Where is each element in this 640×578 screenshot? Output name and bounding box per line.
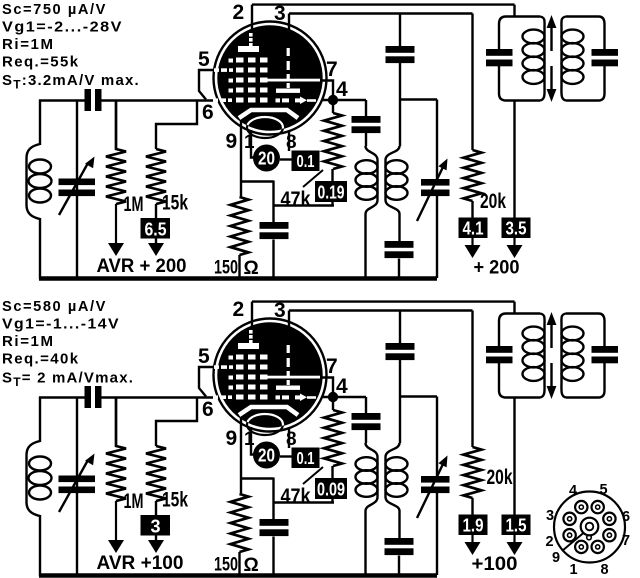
wire: transformer primary bottom to supply (stage 2): [513, 398, 515, 519]
wire: transformer primary bottom to supply (stage 1): [513, 101, 515, 222]
wire: primary branch (stage 1): [400, 14, 437, 279]
svg-text:9: 9: [226, 427, 238, 450]
svg-text:8: 8: [286, 132, 297, 153]
pin 8 lead (stage 2): [280, 427, 292, 457]
svg-text:6: 6: [202, 398, 214, 421]
svg-text:0.09: 0.09: [317, 480, 345, 500]
arrow to AVR (stage 1): [115, 204, 117, 246]
svg-text:0.19: 0.19: [318, 183, 345, 203]
svg-text:9: 9: [552, 550, 560, 566]
tuning arrow down (stage 2): [547, 363, 557, 399]
arrow transformer to supply (stage 1): [513, 238, 515, 248]
capacitor node4 coupling (stage 1): [352, 116, 381, 123]
svg-text:15k: 15k: [162, 192, 188, 215]
arrow to supply (stage 2): [155, 540, 157, 543]
value box anode current right (stage 2): [502, 515, 531, 536]
value box screen voltage (stage 2): [315, 478, 347, 499]
svg-text:4.1: 4.1: [463, 219, 484, 239]
pin 2 lead (stage 1): [251, 5, 253, 30]
svg-text:5: 5: [198, 48, 210, 71]
IF transformer T1 primary winding (stage 1): [356, 146, 378, 278]
wire: anode line from pin 3 (stage 2): [289, 311, 473, 448]
arrow 20k to supply (stage 1): [471, 238, 473, 248]
value box screen voltage (stage 1): [315, 181, 347, 202]
capacitor T1 secondary to rail (stage 1): [385, 241, 414, 278]
resistor 47k screen (stage 1): [274, 100, 343, 206]
svg-text:20: 20: [258, 446, 275, 466]
arrow to AVR (stage 2): [115, 501, 117, 543]
svg-text:6.5: 6.5: [145, 220, 167, 240]
svg-text:7: 7: [622, 533, 630, 549]
arrow 20k to supply (stage 2): [471, 535, 473, 545]
value box under 15k (stage 1): [141, 218, 171, 239]
capacitor cathode bypass (stage 2): [260, 519, 289, 575]
resistor 15k screen feed (stage 2): [146, 398, 197, 546]
svg-text:1M: 1M: [124, 193, 144, 216]
svg-text:Vg1=-1...-14V: Vg1=-1...-14V: [2, 316, 120, 333]
svg-text:5: 5: [599, 482, 607, 498]
tuning arrow down (stage 1): [547, 66, 557, 102]
node 4 junction (stage 1): [328, 95, 338, 105]
svg-text:+100: +100: [472, 554, 518, 575]
svg-text:AVR +100: AVR +100: [97, 553, 184, 574]
pin 1 lead (stage 1): [251, 130, 254, 158]
svg-text:8: 8: [600, 562, 608, 578]
trimmer capacitor with arrow (stage 2): [417, 456, 450, 519]
svg-text:20: 20: [258, 149, 275, 169]
value box 0.1 (stage 1): [292, 151, 320, 172]
pin 3 lead (stage 1): [288, 14, 290, 32]
value box anode current left (stage 1): [459, 218, 488, 239]
wire: bottom rail (stage 2): [39, 573, 437, 578]
current value circle 20 (stage 1): [253, 145, 280, 172]
svg-text:4: 4: [569, 483, 577, 499]
pin 3 lead (stage 2): [288, 311, 290, 329]
pin 7 lead (stage 2): [320, 378, 333, 393]
variable capacitor (tuning) (stage 1): [59, 157, 96, 216]
svg-text:47k: 47k: [281, 485, 311, 508]
pin 5 lead (stage 1): [199, 70, 214, 100]
coupling capacitor grid input (stage 2): [85, 386, 102, 408]
wire: grid input line from antenna coil to pin 6 (stage 1): [39, 99, 219, 101]
tube envelope (stage 2): [214, 319, 327, 432]
value box anode current left (stage 2): [459, 515, 488, 536]
leader line 47k (stage 2): [303, 467, 323, 484]
IF transformer T1 secondary winding (stage 2): [386, 443, 408, 538]
capacitor T2 primary tuning (stage 2): [486, 346, 513, 363]
pin 8 lead (stage 1): [280, 130, 292, 160]
pin 1 lead (stage 2): [251, 427, 254, 455]
wire: cathode node (stage 1): [241, 181, 274, 223]
pin 9 lead (stage 1): [240, 120, 242, 197]
pin 9 lead (stage 2): [240, 417, 242, 494]
resistor 20k anode feed (stage 1): [464, 150, 482, 221]
svg-text:ST= 2 mA/Vmax.: ST= 2 mA/Vmax.: [2, 370, 134, 390]
wire: node 4 to IF transformer (stage 2): [322, 397, 366, 443]
svg-text:0.1: 0.1: [297, 448, 315, 468]
svg-text:Sc=750 µA/V: Sc=750 µA/V: [2, 1, 107, 18]
tube internal electrodes (stage 2): [213, 330, 320, 435]
leader line 47k (stage 1): [303, 170, 323, 187]
pin 2 lead (stage 2): [251, 302, 253, 327]
wire: anode line from pin 3 (stage 1): [289, 14, 473, 151]
variable capacitor (tuning) (stage 2): [59, 454, 96, 513]
svg-text:5: 5: [198, 345, 210, 368]
svg-text:Ω: Ω: [244, 555, 259, 576]
wire: primary branch (stage 2): [400, 311, 437, 576]
IF transformer T1 secondary winding (stage 1): [386, 146, 408, 241]
svg-text:Ri=1M: Ri=1M: [2, 36, 55, 53]
resistor 47k screen (stage 2): [274, 397, 343, 503]
svg-text:Req.=55k: Req.=55k: [2, 54, 80, 71]
svg-text:1.5: 1.5: [506, 516, 527, 536]
svg-text:1: 1: [244, 429, 255, 450]
arrow transformer to supply (stage 2): [513, 535, 515, 545]
svg-text:Sc=580 µA/V: Sc=580 µA/V: [2, 298, 107, 315]
label 150 ohm (stage 2): [214, 555, 259, 577]
IF transformer T2 primary (stage 1): [499, 17, 545, 101]
wire: node 4 to IF transformer (stage 1): [322, 100, 366, 146]
pin 5 lead (stage 2): [199, 367, 214, 397]
svg-text:2: 2: [233, 1, 245, 24]
svg-text:6: 6: [202, 101, 214, 124]
wire: grid input line from antenna coil to pin 6 (stage 2): [39, 396, 219, 398]
resistor 15k screen feed (stage 1): [146, 101, 197, 249]
svg-text:1M: 1M: [124, 490, 144, 513]
wire: bottom rail (stage 1): [39, 276, 437, 281]
wire: left rail (stage 1): [39, 100, 41, 280]
value box anode current right (stage 1): [502, 218, 531, 239]
svg-text:Req.=40k: Req.=40k: [2, 351, 80, 368]
wire: cathode node (stage 2): [241, 478, 274, 520]
IF transformer T1 primary winding (stage 2): [356, 443, 378, 575]
trimmer capacitor with arrow (stage 1): [417, 159, 450, 222]
svg-text:Ω: Ω: [244, 258, 259, 279]
capacitor T1 secondary to rail (stage 2): [385, 538, 414, 575]
tuning arrow up (stage 2): [547, 312, 557, 348]
arrow to supply (stage 1): [155, 243, 157, 246]
IF transformer T2 secondary (stage 2): [561, 314, 604, 398]
value box under 15k (stage 2): [141, 515, 171, 536]
capacitor anode tuning (stage 1): [386, 46, 415, 53]
svg-text:3: 3: [546, 508, 554, 524]
wire: left rail (stage 2): [39, 397, 41, 577]
svg-text:ST:3.2mA/V max.: ST:3.2mA/V max.: [2, 72, 140, 92]
tuning arrow up (stage 1): [547, 15, 557, 51]
svg-text:1: 1: [244, 132, 255, 153]
capacitor T2 secondary tuning (stage 1): [592, 49, 619, 66]
capacitor node4 coupling (stage 2): [352, 413, 381, 420]
node 4 junction (stage 2): [328, 392, 338, 402]
capacitor T2 primary tuning (stage 1): [486, 49, 513, 66]
coupling capacitor grid input (stage 1): [85, 89, 102, 111]
wire: tuning branch (stage 2): [76, 398, 78, 576]
svg-text:9: 9: [226, 130, 238, 153]
svg-text:150: 150: [214, 258, 238, 279]
socket pin labels: [545, 482, 630, 578]
tube envelope (stage 1): [214, 22, 327, 135]
svg-text:Vg1=-2...-28V: Vg1=-2...-28V: [2, 19, 123, 36]
resistor 20k anode feed (stage 2): [464, 447, 482, 518]
tube internal electrodes (stage 1): [213, 33, 320, 138]
svg-text:8: 8: [286, 429, 297, 450]
svg-text:4: 4: [336, 375, 348, 398]
svg-text:1.9: 1.9: [463, 516, 484, 536]
svg-text:AVR + 200: AVR + 200: [97, 256, 187, 277]
wire: top line from pin 2 to output transformer (stage 1): [252, 5, 515, 17]
svg-text:+ 200: + 200: [474, 258, 520, 279]
wire: tuning branch (stage 1): [76, 101, 78, 279]
svg-text:4: 4: [336, 78, 348, 101]
resistor 150 ohm cathode (stage 2): [231, 494, 249, 575]
svg-text:15k: 15k: [162, 489, 188, 512]
svg-text:3: 3: [150, 517, 160, 537]
svg-text:20k: 20k: [487, 466, 513, 489]
svg-text:2: 2: [233, 298, 245, 321]
antenna coil L1 (stage 1): [27, 144, 52, 219]
capacitor anode tuning (stage 2): [386, 343, 415, 350]
capacitor cathode bypass (stage 1): [260, 222, 289, 278]
IF transformer T2 primary (stage 2): [499, 314, 545, 398]
IF transformer T2 secondary (stage 1): [561, 17, 604, 101]
capacitor T2 secondary tuning (stage 2): [592, 346, 619, 363]
svg-text:150: 150: [214, 555, 238, 576]
current value circle 20 (stage 2): [253, 442, 280, 469]
tube socket base diagram: [554, 492, 625, 563]
svg-text:2: 2: [545, 534, 553, 550]
resistor 150 ohm cathode (stage 1): [231, 197, 249, 278]
svg-text:20k: 20k: [480, 190, 506, 213]
annotation: stage 1 parameters: [2, 1, 140, 92]
resistor 1M grid leak (stage 2): [106, 398, 126, 502]
pin 7 lead (stage 1): [320, 81, 333, 96]
label 150 ohm (stage 1): [214, 258, 259, 280]
svg-text:1: 1: [569, 562, 577, 578]
svg-text:3.5: 3.5: [506, 219, 527, 239]
wire: top line from pin 2 to output transformer (stage 2): [252, 302, 515, 314]
svg-text:47k: 47k: [281, 188, 311, 211]
svg-text:0.1: 0.1: [297, 151, 315, 171]
svg-text:Ri=1M: Ri=1M: [2, 333, 55, 350]
antenna coil L1 (stage 2): [27, 441, 52, 516]
annotation: stage 2 parameters: [2, 298, 134, 389]
svg-text:6: 6: [622, 509, 630, 525]
resistor 1M grid leak (stage 1): [106, 101, 126, 205]
value box 0.1 (stage 2): [292, 448, 320, 469]
